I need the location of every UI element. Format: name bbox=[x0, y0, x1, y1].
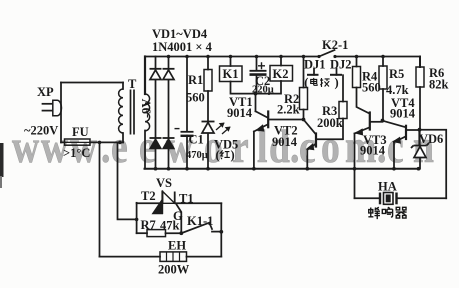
svg-text:FU: FU bbox=[72, 125, 89, 139]
svg-text:560: 560 bbox=[186, 91, 205, 105]
svg-text:220μ: 220μ bbox=[252, 85, 274, 96]
svg-text:T1: T1 bbox=[179, 192, 194, 206]
svg-text:82k: 82k bbox=[429, 78, 449, 92]
svg-text:T2: T2 bbox=[141, 189, 156, 203]
svg-text:K1-1: K1-1 bbox=[187, 214, 213, 228]
svg-text:9014: 9014 bbox=[360, 144, 386, 158]
svg-text:R1: R1 bbox=[188, 73, 203, 87]
svg-text:~220V: ~220V bbox=[24, 124, 58, 138]
svg-text:C1: C1 bbox=[189, 133, 204, 147]
svg-text:1N4001 × 4: 1N4001 × 4 bbox=[152, 40, 213, 54]
svg-text:K2-1: K2-1 bbox=[322, 38, 348, 52]
svg-text:.: . bbox=[101, 121, 110, 173]
svg-text:VS: VS bbox=[156, 176, 172, 190]
svg-text:(: ( bbox=[304, 76, 308, 90]
svg-text:560: 560 bbox=[362, 81, 381, 95]
svg-text:470μ: 470μ bbox=[186, 150, 208, 161]
svg-text:T: T bbox=[128, 77, 137, 91]
svg-text:K1: K1 bbox=[223, 67, 239, 81]
svg-text:HA: HA bbox=[378, 180, 397, 194]
svg-text:200k: 200k bbox=[317, 116, 343, 130]
svg-text:c: c bbox=[387, 121, 404, 173]
svg-text:e: e bbox=[111, 121, 128, 173]
svg-text:9014: 9014 bbox=[272, 135, 298, 149]
svg-text:VD1~VD4: VD1~VD4 bbox=[152, 27, 208, 41]
svg-text:VD6: VD6 bbox=[419, 132, 443, 146]
svg-text:47k: 47k bbox=[160, 219, 180, 233]
svg-text:R7: R7 bbox=[141, 218, 156, 232]
svg-text:R5: R5 bbox=[389, 67, 404, 81]
svg-text:2.2k: 2.2k bbox=[277, 103, 300, 117]
svg-text:9014: 9014 bbox=[227, 106, 253, 120]
svg-text:-9V: -9V bbox=[140, 99, 154, 118]
svg-text:(: ( bbox=[216, 148, 220, 162]
svg-text:4.7k: 4.7k bbox=[386, 83, 409, 97]
svg-text:K2: K2 bbox=[273, 67, 289, 81]
svg-text:EH: EH bbox=[168, 239, 186, 253]
svg-text:>1°C: >1°C bbox=[63, 146, 90, 160]
svg-text:200W: 200W bbox=[158, 263, 190, 277]
svg-text:DJ1: DJ1 bbox=[304, 58, 326, 72]
svg-text:): ) bbox=[231, 148, 235, 162]
svg-text:DJ2: DJ2 bbox=[330, 58, 352, 72]
svg-text:): ) bbox=[335, 76, 339, 90]
svg-text:XP: XP bbox=[37, 85, 54, 99]
svg-text:9014: 9014 bbox=[390, 107, 416, 121]
